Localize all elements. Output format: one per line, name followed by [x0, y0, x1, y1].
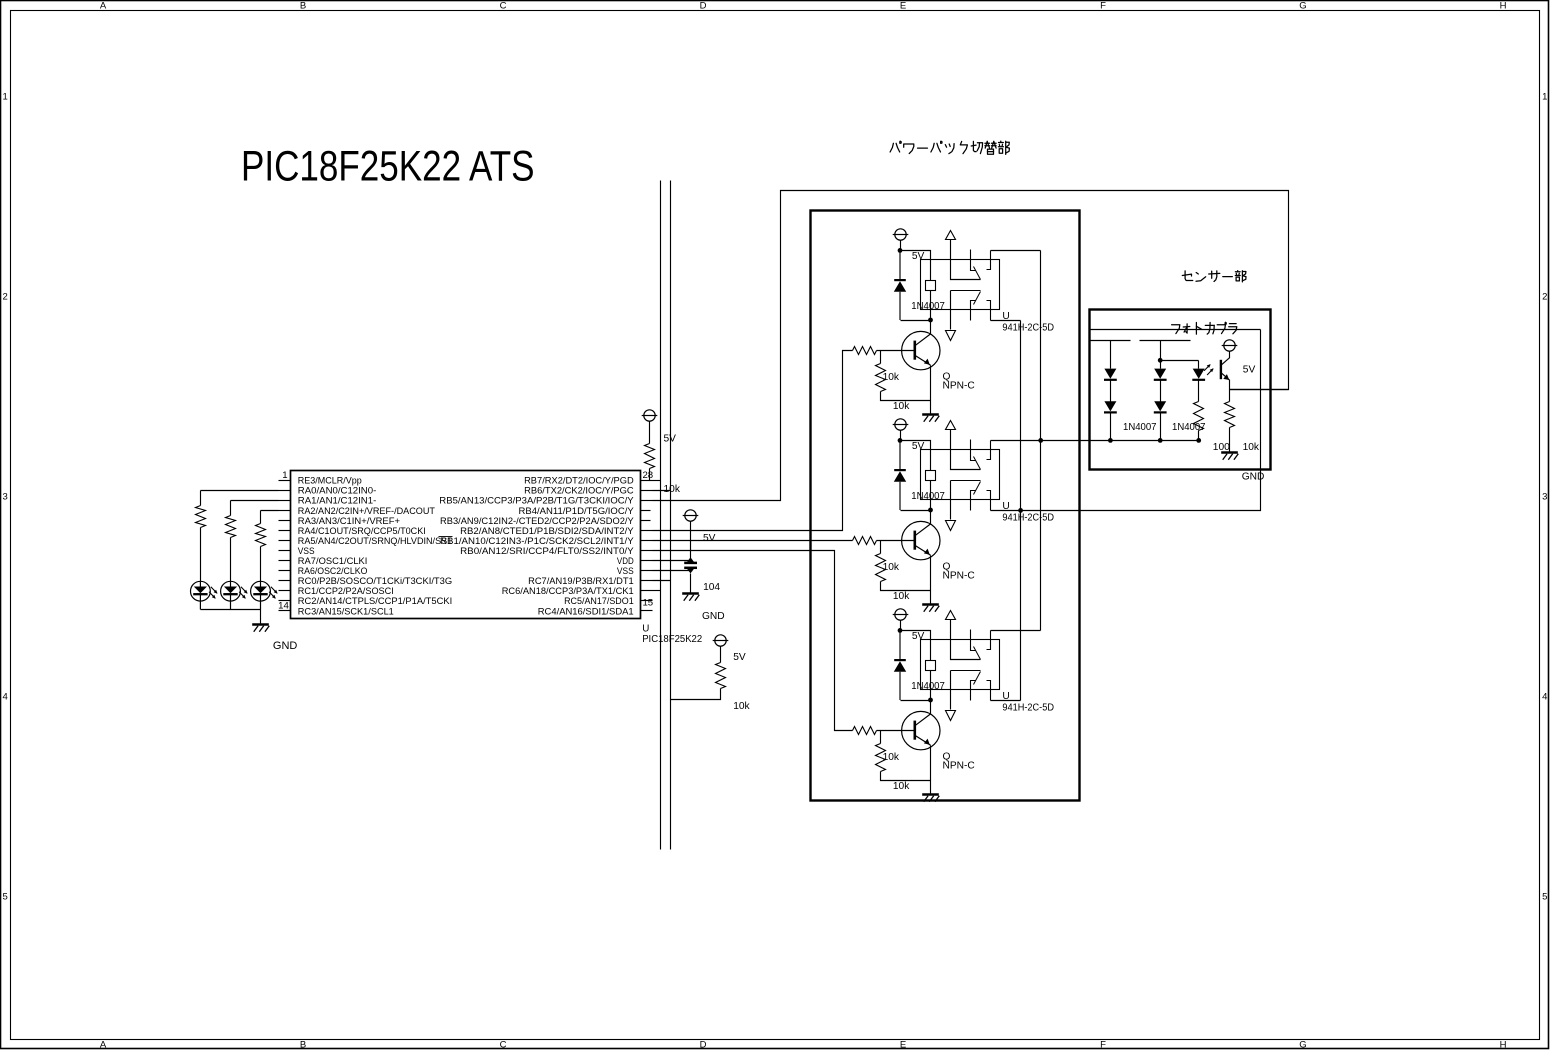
power 5V symbol (relay 2)	[893, 419, 909, 430]
wire pole1 NC to bus B (relay 1)	[991, 250, 1041, 252]
IC right pin stub row 13	[641, 610, 653, 612]
ground (capacitor)	[682, 594, 699, 601]
wire common to down-arrow (relay 1)	[950, 291, 952, 330]
resistor 10k base pulldown (relay 3)	[876, 744, 886, 772]
wire pole1 NC to bus B (relay 2)	[991, 440, 1041, 442]
svg-text:PIC18F25K22: PIC18F25K22	[642, 634, 702, 645]
wire 5V to resistor (bottom)	[720, 647, 722, 663]
wire RB1/INT1 to transistor Q2 base	[653, 540, 853, 542]
transistor Q NPN-C (relay 3)	[902, 711, 940, 749]
wire emitter down (relay 3)	[930, 746, 932, 781]
node diode column 1 rail junction	[1108, 438, 1113, 443]
svg-text:5V: 5V	[664, 434, 677, 445]
wire coil to collector junction (relay 1)	[930, 291, 932, 321]
wire pole2 NC to bus A (relay 2)	[991, 510, 1021, 512]
wire RA1 row to LED column 2	[231, 500, 279, 502]
svg-text:5V: 5V	[912, 251, 925, 262]
svg-text:H: H	[1500, 1, 1507, 12]
relay U 941H-2C-5D body (relay 3)	[921, 640, 1000, 690]
resistor 10k base series (relay 3)	[853, 727, 877, 735]
wire pulldown to emitter rail (relay 3)	[881, 772, 931, 781]
wire between diodes column 1	[1110, 380, 1112, 402]
wire between diodes column 2	[1160, 380, 1162, 402]
svg-text:28: 28	[642, 470, 653, 481]
svg-text:941H-2C-5D: 941H-2C-5D	[1002, 702, 1054, 713]
resistor 10k base pulldown (relay 2)	[876, 554, 886, 582]
svg-text:4: 4	[3, 691, 8, 702]
node bus B / sensor wire junction	[1038, 438, 1043, 443]
overline on SS1 (RA5 row)	[439, 536, 453, 538]
resistor 10k (sensor emitter)	[1225, 402, 1235, 428]
svg-text:G: G	[1299, 1, 1306, 12]
IC left pin stub row 10	[279, 580, 291, 582]
label パワーパック切替部 (power pack switching section)	[890, 141, 1009, 154]
svg-text:C: C	[500, 1, 507, 12]
wire collector to coil junction (relay 1)	[930, 321, 932, 334]
off-page up arrow (relay 2 common A)	[946, 421, 956, 430]
svg-text:5V: 5V	[912, 631, 925, 642]
LED D1	[191, 581, 218, 609]
svg-text:1N4007: 1N4007	[911, 491, 945, 502]
relay contact pole2 NO stub (relay 3)	[971, 681, 976, 701]
resistor 10k base pulldown (relay 1)	[876, 364, 886, 392]
svg-text:941H-2C-5D: 941H-2C-5D	[1002, 512, 1054, 523]
off-page down arrow (relay 2 common B)	[946, 521, 956, 531]
wire resistor to LED D3	[260, 547, 262, 582]
svg-text:1N4007: 1N4007	[1123, 422, 1157, 433]
IC left pin stub row 5	[279, 530, 291, 532]
wire base resistor to base (relay 1)	[877, 350, 915, 352]
relay contact pole1 blade (relay 3)	[974, 647, 981, 660]
svg-text:E: E	[900, 1040, 906, 1050]
label フォトカプラ (photocoupler)	[1172, 322, 1237, 334]
resistor R3 (LED series)	[256, 524, 266, 547]
relay contact pole1 NO stub (relay 1)	[971, 250, 976, 271]
wire resistor to LED D2	[230, 538, 232, 582]
svg-text:1: 1	[282, 470, 287, 481]
wire VDD pin to capacitor	[653, 560, 693, 562]
relay contact pole1 NO stub (relay 2)	[971, 440, 976, 461]
ground (relay 3 emitter)	[922, 795, 939, 802]
relay contact pole2 common bar (relay 3)	[951, 670, 981, 672]
IC left pin stub row 11	[279, 590, 291, 592]
node diode column 2 top junction	[1158, 358, 1163, 363]
wire RB7 to vertical bus V1	[653, 480, 661, 482]
label センサー部 (sensor section)	[1182, 271, 1246, 282]
svg-text:RB0/AN12/SRI/CCP4/FLT0/SS2/INT: RB0/AN12/SRI/CCP4/FLT0/SS2/INT0/Y	[460, 546, 634, 557]
IC right pin stub row 11	[641, 590, 653, 592]
wire collector to coil junction (relay 3)	[930, 701, 932, 714]
wire collector to coil junction (relay 2)	[930, 511, 932, 524]
resistor 10k base series (relay 1)	[853, 347, 877, 355]
wire pulldown to emitter rail (relay 2)	[881, 582, 931, 591]
wire diode column rail segment 2	[1140, 340, 1191, 342]
svg-text:RC4/AN16/SDI1/SDA1: RC4/AN16/SDI1/SDA1	[538, 606, 634, 617]
wire down to resistor R3	[260, 511, 262, 524]
relay coil (relay 1)	[926, 281, 936, 291]
svg-text:G: G	[1299, 1040, 1306, 1050]
transistor Q NPN-C (relay 2)	[902, 521, 940, 559]
wire diode column 2 bottom lead	[1160, 413, 1162, 441]
relay contact pole1 NC bracket (relay 2)	[987, 441, 991, 460]
relay coil (relay 2)	[926, 471, 936, 481]
svg-text:10k: 10k	[733, 701, 750, 712]
wire common to down-arrow (relay 3)	[950, 671, 952, 710]
IC left pin stub row 13	[279, 610, 291, 612]
wire junction to coil (relay 2)	[901, 441, 931, 471]
IC right pin stub row 4	[641, 520, 651, 522]
wire base to pulldown resistor (relay 1)	[880, 351, 882, 364]
IC left pin stub row 12	[279, 600, 291, 602]
wire RB5 to sensor (net SENS)	[653, 191, 1289, 501]
wire coil to collector junction (relay 3)	[930, 671, 932, 701]
svg-text:3: 3	[3, 491, 8, 502]
svg-text:RC3/AN15/SCK1/SCL1: RC3/AN15/SCK1/SCL1	[298, 606, 394, 617]
svg-text:RA5/AN4/C2OUT/SRNQ/HLVDIN/SS1: RA5/AN4/C2OUT/SRNQ/HLVDIN/SS1	[298, 536, 452, 547]
wire down to resistor R2	[230, 501, 232, 516]
wire junction to coil (relay 3)	[901, 631, 931, 661]
wire pole1 NC to bus B (relay 3)	[991, 630, 1041, 632]
relay contact pole1 NO stub (relay 3)	[971, 630, 976, 651]
IC right pin stub row 10	[641, 580, 653, 582]
wire base to pulldown resistor (relay 3)	[880, 731, 882, 744]
svg-text:5V: 5V	[1243, 365, 1256, 376]
IC right pin stub row 12	[641, 600, 653, 602]
relay contact pole2 common bar (relay 1)	[951, 290, 981, 292]
resistor 10k (RB7 pull-up)	[645, 444, 655, 469]
IC right pin stub row 6	[641, 540, 653, 542]
wire sensor top rail	[1091, 329, 1261, 331]
relay U 941H-2C-5D body (relay 2)	[921, 450, 1000, 500]
off-page up arrow (relay 3 common A)	[946, 611, 956, 620]
wire emitter to ground (relay 3)	[930, 781, 932, 794]
svg-text:10k: 10k	[893, 401, 910, 412]
svg-text:U: U	[1002, 501, 1009, 512]
wire up-arrow to contact blade 1 (relay 3)	[951, 620, 981, 660]
power 5V symbol (phototransistor)	[1222, 340, 1238, 351]
wire base to pulldown resistor (relay 2)	[880, 541, 882, 554]
wire up-arrow to contact blade 1 (relay 2)	[951, 430, 981, 470]
off-page up arrow (relay 1 common A)	[946, 231, 956, 240]
svg-text:NPN-C: NPN-C	[943, 761, 975, 772]
wire 5V to capacitor	[690, 522, 692, 559]
svg-text:B: B	[300, 1040, 306, 1050]
svg-text:5: 5	[1542, 891, 1547, 902]
resistor 10k (bottom pull-up)	[716, 663, 726, 689]
wire junction to coil (relay 1)	[901, 251, 931, 281]
svg-text:10k: 10k	[883, 562, 900, 573]
svg-text:D: D	[700, 1, 707, 12]
relay contact pole2 NC bracket (relay 1)	[987, 301, 991, 321]
wire emitter to ground (relay 1)	[930, 401, 932, 414]
wire common to down-arrow (relay 2)	[950, 481, 952, 520]
LED D3	[251, 581, 278, 609]
node coil/collector junction (relay 2)	[928, 508, 933, 513]
IC left pin stub row 7	[279, 550, 291, 552]
wire emitter to output/resistor	[1229, 381, 1231, 402]
wire 5V to resistor	[649, 422, 651, 444]
svg-text:H: H	[1500, 1040, 1507, 1050]
svg-text:100: 100	[1213, 442, 1230, 453]
wire emitter output to box edge	[1230, 389, 1289, 391]
IC left pin stub row 1	[279, 490, 291, 492]
phototransistor	[1221, 357, 1230, 380]
wire column2 to photocoupler LED	[1161, 360, 1199, 362]
wire RA2 row to LED column 3	[261, 510, 279, 512]
wire RB0/INT0 to transistor Q3 base	[653, 551, 853, 731]
IC right pin stub row 3	[641, 510, 651, 512]
wire down to resistor R1	[200, 491, 202, 506]
IC right pin stub row 5	[641, 530, 653, 532]
svg-text:1N4007: 1N4007	[1172, 422, 1206, 433]
IC left pin stub row 8	[279, 560, 291, 562]
node coil/collector junction (relay 3)	[928, 698, 933, 703]
IC right pin stub row 9	[641, 570, 653, 572]
wire RC7 to bus V2	[653, 580, 671, 582]
off-page down arrow (relay 3 common B)	[946, 711, 956, 721]
svg-text:2: 2	[3, 291, 8, 302]
svg-text:NPN-C: NPN-C	[943, 381, 975, 392]
wire pulldown to emitter rail (relay 1)	[881, 392, 931, 401]
svg-text:15: 15	[642, 598, 653, 609]
vertical bus wire V1	[660, 181, 662, 850]
relay contact pole1 NC bracket (relay 1)	[987, 251, 991, 270]
svg-text:14: 14	[278, 600, 289, 611]
svg-text:D: D	[700, 1040, 707, 1050]
relay contact pole2 NC bracket (relay 2)	[987, 491, 991, 511]
relay contact pole2 blade (relay 1)	[974, 292, 981, 305]
relay U 941H-2C-5D body (relay 1)	[921, 260, 1000, 310]
IC left pin stub row 0	[279, 480, 291, 482]
svg-text:1: 1	[3, 91, 8, 102]
relay contact pole2 NO stub (relay 2)	[971, 491, 976, 511]
svg-text:A: A	[100, 1040, 107, 1050]
wire coil to collector junction (relay 2)	[930, 481, 932, 511]
wire RC6 to bus V1	[653, 590, 661, 592]
LED cathode rail wire	[201, 609, 261, 611]
wire capacitor to ground	[690, 574, 692, 594]
svg-text:PIC18F25K22 ATS: PIC18F25K22 ATS	[241, 143, 535, 191]
resistor R2 (LED series)	[226, 516, 236, 538]
node diode column 2 rail junction	[1158, 438, 1163, 443]
vertical bus A wire (pole2 outputs)	[1020, 321, 1022, 701]
diode 1N4007 column 2 lower	[1154, 401, 1167, 412]
node resistor 100 rail end	[1196, 438, 1201, 443]
photocoupler LED	[1192, 369, 1205, 380]
IC right pin stub row 8	[641, 560, 653, 562]
svg-text:F: F	[1100, 1040, 1106, 1050]
wire rail to ground	[260, 610, 262, 624]
photocoupler LED emission arrows	[1204, 364, 1214, 375]
svg-text:3: 3	[1542, 491, 1547, 502]
wire junction to diode anode (relay 3)	[901, 700, 931, 702]
svg-text:F: F	[1100, 1, 1106, 12]
diode 1N4007 column 2 upper	[1154, 369, 1167, 380]
svg-text:10k: 10k	[883, 752, 900, 763]
wire RB2/INT2 to transistor Q1 base	[653, 351, 853, 531]
diode 1N4007 column 1 upper	[1104, 369, 1117, 380]
relay contact pole2 common bar (relay 2)	[951, 480, 981, 482]
ground (LED rail)	[252, 625, 269, 632]
wire diode column 1 top lead	[1110, 341, 1112, 369]
IC left pin stub row 4	[279, 520, 291, 522]
svg-text:NPN-C: NPN-C	[943, 571, 975, 582]
relay contact pole1 NC bracket (relay 3)	[987, 631, 991, 650]
wire RA0 row to LED column 1	[201, 490, 279, 492]
vertical bus wire V2	[670, 181, 672, 850]
svg-text:U: U	[1002, 691, 1009, 702]
svg-text:B: B	[300, 1, 306, 12]
op IC U PIC18F25K22 body	[291, 471, 641, 619]
node coil/collector junction (relay 1)	[928, 318, 933, 323]
power 5V symbol (relay 1)	[893, 229, 909, 240]
wire diode column 1 bottom lead	[1110, 413, 1112, 441]
diode 1N4007 flyback (relay 3)	[894, 630, 906, 700]
svg-text:10k: 10k	[883, 372, 900, 383]
wire resistor to bus V2	[671, 689, 721, 700]
power 5V symbol (RB7 pull-up)	[642, 410, 658, 421]
wire emitter down (relay 1)	[930, 366, 932, 401]
relay contact pole2 NO stub (relay 1)	[971, 301, 976, 321]
IC right pin stub row 0	[641, 480, 653, 482]
svg-text:10k: 10k	[1243, 442, 1260, 453]
IC right pin stub row 2	[641, 500, 653, 502]
wire up-arrow to contact blade 1 (relay 1)	[951, 240, 981, 280]
svg-text:GND: GND	[273, 640, 298, 652]
off-page down arrow (relay 1 common B)	[946, 331, 956, 341]
wire 5V to collector	[1229, 352, 1231, 358]
node coil junction top (relay 1)	[898, 248, 903, 253]
power 5V symbol (bottom pull-up)	[713, 635, 729, 646]
svg-text:10k: 10k	[893, 591, 910, 602]
wire 5V to coil junction (relay 3)	[900, 621, 902, 631]
svg-text:A: A	[100, 1, 107, 12]
relay contact pole2 NC bracket (relay 3)	[987, 681, 991, 701]
wire emitter to ground (relay 2)	[930, 591, 932, 604]
svg-text:10k: 10k	[664, 484, 681, 495]
power pack switching section box	[811, 211, 1080, 801]
IC left pin stub row 2	[279, 500, 291, 502]
svg-text:1N4007: 1N4007	[911, 301, 945, 312]
wire 5V to coil junction (relay 1)	[900, 241, 902, 251]
svg-text:5V: 5V	[733, 652, 746, 663]
node coil junction top (relay 2)	[898, 438, 903, 443]
IC right pin stub row 7	[641, 550, 653, 552]
relay coil (relay 3)	[926, 661, 936, 671]
wire diode column rail segment 1	[1091, 340, 1131, 342]
svg-text:E: E	[900, 1, 906, 12]
IC left pin stub row 9	[279, 570, 291, 572]
ground (relay 2 emitter)	[922, 605, 939, 612]
resistor 10k base series (relay 2)	[853, 537, 877, 545]
ground (sensor)	[1221, 453, 1238, 460]
wire resistor 100 to rail	[1198, 431, 1200, 441]
resistor R1 (LED series)	[196, 506, 206, 528]
relay contact pole1 blade (relay 2)	[974, 457, 981, 470]
relay contact pole2 blade (relay 2)	[974, 482, 981, 495]
wire LED top lead	[1198, 361, 1200, 369]
svg-text:104: 104	[703, 582, 720, 593]
wire junction to diode anode (relay 2)	[901, 510, 931, 512]
wire GND bus to sensor box	[1021, 330, 1261, 511]
power 5V symbol (relay 3)	[893, 609, 909, 620]
svg-text:10k: 10k	[893, 781, 910, 792]
svg-text:GND: GND	[1242, 472, 1265, 483]
svg-text:5V: 5V	[912, 441, 925, 452]
IC left pin stub row 6	[279, 540, 291, 542]
transistor Q NPN-C (relay 1)	[902, 331, 940, 369]
relay contact pole2 blade (relay 3)	[974, 672, 981, 685]
IC right pin stub row 1	[641, 490, 653, 492]
wire resistor to RB7 row	[649, 469, 651, 481]
IC left pin stub row 3	[279, 510, 291, 512]
resistor 100	[1194, 402, 1204, 431]
wire relay2 NC to sensor diode rail	[1041, 440, 1199, 442]
svg-text:U: U	[642, 624, 649, 635]
wire emitter down (relay 2)	[930, 556, 932, 591]
diode 1N4007 flyback (relay 1)	[894, 250, 906, 320]
svg-text:5V: 5V	[703, 533, 716, 544]
diode 1N4007 flyback (relay 2)	[894, 440, 906, 510]
node bus A / GND wire junction	[1018, 508, 1023, 513]
wire LED bottom to resistor 100	[1198, 380, 1200, 402]
wire RB6 to vertical bus V2	[653, 490, 671, 492]
svg-text:1: 1	[1542, 91, 1547, 102]
wire base resistor to base (relay 2)	[877, 540, 915, 542]
ground (relay 1 emitter)	[922, 415, 939, 422]
svg-text:2: 2	[1542, 291, 1547, 302]
relay contact pole1 blade (relay 1)	[974, 267, 981, 280]
wire 5V to coil junction (relay 2)	[900, 431, 902, 441]
node coil junction top (relay 3)	[898, 628, 903, 633]
wire resistor to LED D1	[200, 528, 202, 582]
wire resistor to ground (sensor)	[1229, 428, 1231, 453]
capacitor 104	[684, 557, 697, 573]
sensor section box	[1090, 310, 1271, 470]
svg-text:4: 4	[1542, 691, 1547, 702]
svg-text:5: 5	[3, 891, 8, 902]
power 5V symbol (VDD)	[683, 510, 699, 521]
wire junction to diode anode (relay 1)	[901, 320, 931, 322]
wire VSS pin to capacitor	[653, 570, 693, 572]
wire pole2 NC to bus A (relay 1)	[991, 320, 1021, 322]
wire base resistor to base (relay 3)	[877, 730, 915, 732]
svg-text:GND: GND	[702, 611, 725, 622]
LED D2	[221, 581, 248, 609]
diode 1N4007 column 1 lower	[1104, 401, 1117, 412]
vertical bus B wire (pole1 NC outputs)	[1040, 251, 1042, 631]
wire pole2 NC to bus A (relay 3)	[991, 700, 1021, 702]
svg-text:941H-2C-5D: 941H-2C-5D	[1002, 322, 1054, 333]
svg-text:U: U	[1002, 311, 1009, 322]
svg-text:1N4007: 1N4007	[911, 681, 945, 692]
wire diode column 2 top lead	[1160, 341, 1162, 369]
svg-text:C: C	[500, 1040, 507, 1050]
